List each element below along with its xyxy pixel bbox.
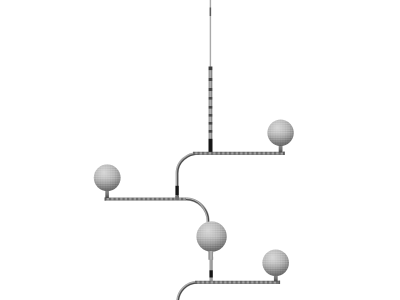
- wire curve from tier-2 arm down into middle ball: [186, 198, 209, 225]
- rod band 3: [209, 88, 213, 91]
- tier-2 arm (left ball to curve toward middle ball): [105, 197, 188, 200]
- tier-2 junction knob: [175, 196, 179, 200]
- wire curve from junction 3 down toward bottom edge: [177, 282, 198, 300]
- rod band 2: [209, 78, 213, 81]
- black sleeve above junction 3: [209, 270, 212, 277]
- ball S2 (left): [94, 164, 121, 191]
- rod band 1: [209, 67, 213, 71]
- dark sleeve on suspension wire: [210, 8, 212, 17]
- ball S3 (middle, larger): [196, 221, 226, 251]
- stub under ball S2: [105, 190, 109, 198]
- rod band 6: [209, 114, 213, 117]
- ball S4 (bottom right): [262, 249, 289, 276]
- rod below ball S3: [210, 260, 213, 282]
- rod band 7: [209, 122, 213, 125]
- rod black sleeve above junction 1: [209, 139, 213, 152]
- tier-3 arm (junction 3 to bottom-right ball): [195, 281, 280, 284]
- wire S-curve from junction 1 down to tier-2 arm: [176, 153, 199, 199]
- rod band 5: [209, 106, 213, 109]
- top suspension wire: [210, 0, 211, 67]
- tier-1 arm (junction 1 to right ball): [193, 152, 285, 155]
- ball S1 (top right): [267, 120, 293, 146]
- rod band 8: [209, 130, 213, 133]
- black sleeve on S-curve above tier-2 junction: [175, 186, 178, 195]
- stub under ball S1: [279, 145, 283, 153]
- main vertical rod: [209, 67, 213, 154]
- rod band 4: [209, 97, 213, 100]
- stub under ball S4: [274, 275, 278, 282]
- stub below ball S3: [209, 251, 214, 260]
